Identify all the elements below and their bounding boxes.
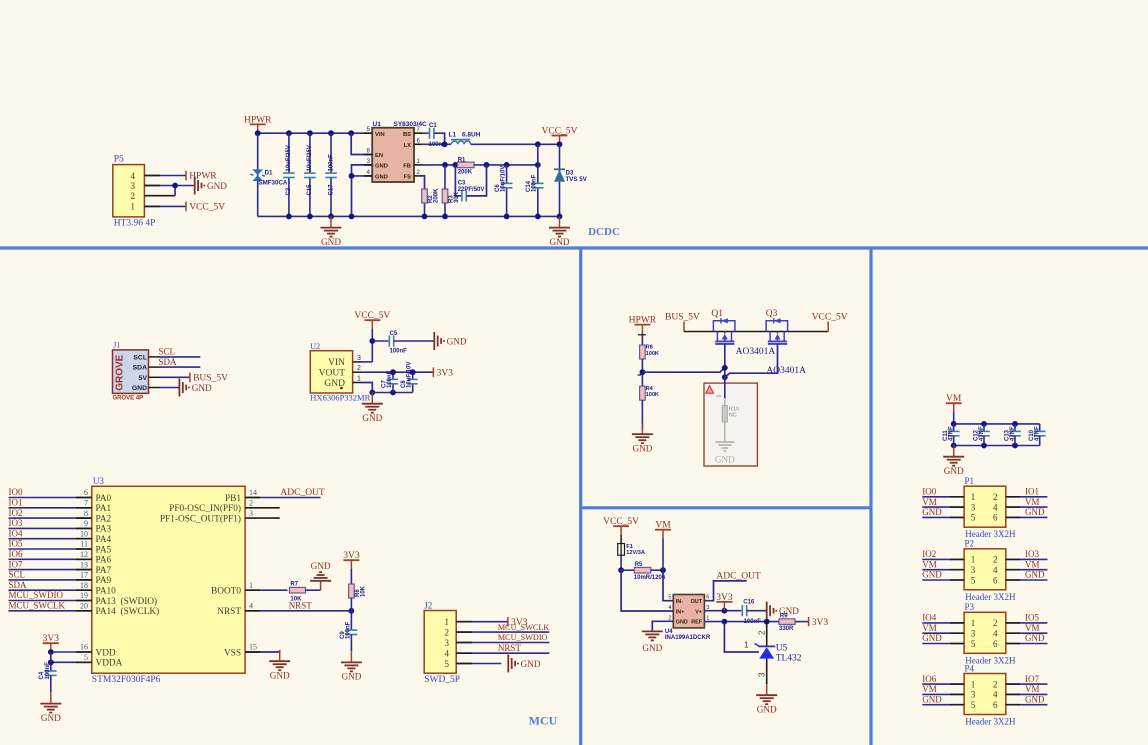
P1 pin 6 wire net GND bbox=[1006, 516, 1048, 518]
junction U2 GND node bbox=[369, 390, 375, 396]
svg-text:HX6306P332MR: HX6306P332MR bbox=[310, 393, 370, 403]
svg-text:10K: 10K bbox=[361, 585, 367, 597]
svg-text:FB: FB bbox=[403, 164, 411, 170]
svg-text:6: 6 bbox=[993, 513, 998, 523]
svg-text:GND: GND bbox=[550, 237, 570, 247]
svg-text:2: 2 bbox=[357, 365, 361, 372]
svg-text:R7: R7 bbox=[290, 582, 298, 588]
wire R7 to GND bbox=[306, 589, 321, 591]
svg-text:NRST: NRST bbox=[498, 643, 522, 653]
svg-text:GND: GND bbox=[132, 385, 147, 392]
wire FB net bbox=[422, 164, 457, 166]
U3 pin 18 PA10 wire net SDA bbox=[9, 589, 92, 591]
Q3 gate wire bbox=[725, 344, 778, 377]
svg-text:U5: U5 bbox=[776, 644, 788, 654]
svg-text:17: 17 bbox=[80, 571, 88, 580]
svg-text:1: 1 bbox=[249, 581, 253, 590]
svg-text:SWD_5P: SWD_5P bbox=[424, 675, 460, 685]
svg-text:IO3: IO3 bbox=[9, 518, 23, 528]
junction VDDA bbox=[48, 659, 54, 665]
U3 pin 5 VDDA wire bbox=[51, 661, 92, 663]
svg-text:4: 4 bbox=[993, 565, 998, 575]
svg-text:GND: GND bbox=[922, 633, 942, 643]
ground GND above R7 flipped bbox=[320, 581, 322, 590]
svg-text:NRST: NRST bbox=[289, 601, 313, 611]
svg-text:2: 2 bbox=[993, 679, 998, 689]
wire gate node into NC box bbox=[724, 377, 726, 398]
svg-text:3: 3 bbox=[971, 690, 976, 700]
capacitor C14 100nF bbox=[537, 165, 539, 184]
DCDC bottom ground rail bbox=[258, 215, 560, 217]
P3 pin 4 wire net VM bbox=[1006, 632, 1048, 634]
svg-text:MCU_SWCLK: MCU_SWCLK bbox=[498, 623, 549, 632]
U3 pin 10 PA4 wire net IO4 bbox=[9, 538, 92, 540]
svg-text:4: 4 bbox=[668, 605, 671, 611]
svg-text:C1: C1 bbox=[429, 123, 437, 129]
U1 pin 5 VIN bbox=[364, 132, 372, 134]
svg-text:GND: GND bbox=[447, 336, 467, 346]
svg-text:IO0: IO0 bbox=[922, 487, 936, 497]
svg-text:1: 1 bbox=[971, 679, 976, 689]
svg-text:VCC_5V: VCC_5V bbox=[812, 312, 848, 322]
U3 pin 4 NRST wire bbox=[245, 610, 351, 612]
junction bottom rail C2 bbox=[286, 214, 292, 220]
capacitor C3 22PF/50V feedforward loop bbox=[455, 165, 461, 196]
capacitor C8 10uF/10V bbox=[412, 372, 414, 379]
svg-text:C2: C2 bbox=[286, 187, 292, 195]
svg-text:BUS_5V: BUS_5V bbox=[665, 312, 700, 322]
capacitor C4 100nF bbox=[50, 652, 52, 671]
U3 pin 6 PA0 wire net IO0 bbox=[9, 497, 92, 499]
connector P2 Header 3X2H bbox=[964, 549, 1006, 590]
svg-text:100nF: 100nF bbox=[328, 154, 334, 172]
svg-text:PA1: PA1 bbox=[96, 504, 112, 514]
svg-text:J2: J2 bbox=[424, 601, 432, 611]
P1 pin 3 wire net VM bbox=[922, 506, 964, 508]
svg-text:7: 7 bbox=[84, 499, 88, 508]
svg-text:5: 5 bbox=[84, 653, 88, 662]
TL432 anode pin 3 wire bbox=[766, 659, 768, 684]
wire VM to cap rail bbox=[953, 412, 955, 431]
svg-text:GND: GND bbox=[375, 175, 388, 181]
svg-text:3: 3 bbox=[971, 629, 976, 639]
svg-text:GND: GND bbox=[311, 561, 331, 571]
svg-text:AO3401A: AO3401A bbox=[766, 366, 806, 376]
ground GND at P5 pin3 bbox=[194, 177, 196, 195]
U3 pin 15 VSS wire bbox=[245, 650, 280, 652]
ground GND under C9 bbox=[350, 651, 352, 662]
svg-text:5: 5 bbox=[971, 639, 976, 649]
svg-text:100nF: 100nF bbox=[390, 348, 408, 354]
svg-text:3V3: 3V3 bbox=[812, 618, 829, 628]
svg-text:VM: VM bbox=[922, 559, 937, 569]
svg-text:11: 11 bbox=[80, 540, 88, 549]
P3 pin 5 wire net GND bbox=[922, 643, 964, 645]
regulator U2 HX6306P332MR bbox=[310, 351, 352, 393]
junction FB R3 bbox=[442, 162, 448, 168]
svg-text:4: 4 bbox=[131, 171, 136, 181]
junction LX C1 bbox=[442, 141, 448, 147]
svg-text:SCL: SCL bbox=[9, 570, 26, 580]
U1 pin 8 EN bbox=[364, 154, 372, 156]
svg-text:100K: 100K bbox=[646, 351, 659, 357]
svg-text:MCU_SWCLK: MCU_SWCLK bbox=[9, 601, 66, 611]
svg-text:3V3: 3V3 bbox=[437, 368, 454, 378]
svg-text:19: 19 bbox=[80, 591, 88, 600]
svg-text:C16: C16 bbox=[743, 600, 755, 606]
capacitor C2 10uF/25V bbox=[288, 133, 290, 173]
resistor R9 330R bbox=[779, 619, 795, 625]
ground GND under TL432 bbox=[766, 684, 768, 695]
svg-text:3: 3 bbox=[758, 672, 767, 677]
junction C8 top bbox=[410, 369, 416, 375]
P1 pin 1 wire net IO0 bbox=[922, 496, 964, 498]
svg-text:FS: FS bbox=[404, 175, 412, 181]
svg-text:R8: R8 bbox=[646, 345, 653, 351]
svg-text:IO0: IO0 bbox=[9, 487, 23, 497]
svg-text:5: 5 bbox=[668, 595, 671, 601]
svg-text:8: 8 bbox=[84, 509, 88, 518]
junction bottom rail C6 bbox=[504, 214, 510, 220]
U4 GND pin wire bbox=[652, 621, 673, 631]
svg-text:ADC_OUT: ADC_OUT bbox=[280, 488, 325, 498]
junction bottom rail U1 GND bbox=[349, 214, 355, 220]
svg-text:2: 2 bbox=[668, 615, 671, 621]
svg-text:4: 4 bbox=[249, 602, 253, 611]
svg-text:BOOT0: BOOT0 bbox=[211, 587, 241, 597]
svg-text:GND: GND bbox=[757, 704, 777, 714]
svg-text:U2: U2 bbox=[310, 342, 320, 351]
svg-text:3: 3 bbox=[971, 565, 976, 575]
capacitor C16 100nF bbox=[741, 605, 743, 616]
svg-text:IO6: IO6 bbox=[922, 674, 936, 684]
svg-text:4: 4 bbox=[993, 629, 998, 639]
capacitor C11 47NF bbox=[953, 424, 955, 432]
TL432 ref wire pin 1 bbox=[724, 622, 759, 652]
svg-text:OUT: OUT bbox=[691, 599, 703, 605]
net flag HPWR at P5 bbox=[185, 171, 187, 181]
junction bottom rail C15 bbox=[307, 214, 313, 220]
section divider horizontal bbox=[0, 246, 1148, 249]
junction P5 pin3 bbox=[172, 183, 178, 189]
U3 pin 19 PA13 (SWDIO) wire net MCU_SWDIO bbox=[9, 600, 92, 602]
svg-text:SDA: SDA bbox=[133, 365, 147, 372]
junction bottom rail R2 bbox=[422, 214, 428, 220]
svg-text:VM: VM bbox=[922, 623, 937, 633]
junction REF TL432 bbox=[722, 619, 728, 625]
svg-text:5: 5 bbox=[971, 513, 976, 523]
svg-text:14: 14 bbox=[249, 488, 257, 497]
svg-text:1: 1 bbox=[706, 615, 709, 621]
svg-text:GND: GND bbox=[207, 181, 227, 191]
svg-text:IN-: IN- bbox=[676, 599, 683, 605]
svg-text:IN+: IN+ bbox=[676, 609, 685, 615]
junction bottom rail C13 bbox=[1012, 443, 1018, 449]
svg-text:STM32F030F4P6: STM32F030F4P6 bbox=[92, 675, 161, 685]
svg-text:C15: C15 bbox=[307, 184, 313, 196]
svg-text:200K: 200K bbox=[434, 188, 440, 203]
section divider vertical right bbox=[869, 248, 872, 745]
P2 pin 6 wire net GND bbox=[1006, 579, 1048, 581]
Q1 gate wire bbox=[724, 344, 726, 377]
U1 pin 1 FB bbox=[414, 164, 422, 166]
svg-text:SMF30CA: SMF30CA bbox=[259, 180, 288, 187]
svg-text:4: 4 bbox=[445, 649, 450, 659]
svg-text:GND: GND bbox=[521, 659, 541, 669]
svg-text:330R: 330R bbox=[779, 626, 794, 632]
junction FB C6 bbox=[504, 162, 510, 168]
svg-text:Header 3X2H: Header 3X2H bbox=[965, 717, 1016, 727]
svg-text:PF0-OSC_IN(PF0): PF0-OSC_IN(PF0) bbox=[169, 503, 241, 514]
section divider horizontal middle bbox=[581, 506, 871, 509]
svg-text:3: 3 bbox=[131, 181, 136, 191]
svg-text:3: 3 bbox=[445, 638, 450, 648]
svg-text:IO6: IO6 bbox=[9, 549, 23, 559]
U3 pin 17 PA9 wire net SCL bbox=[9, 579, 92, 581]
svg-text:10: 10 bbox=[80, 529, 88, 538]
op-amp U4 INA199A1DCKR current sense amp bbox=[673, 595, 704, 628]
svg-text:IO2: IO2 bbox=[9, 508, 23, 518]
ground GND at J1 bbox=[178, 379, 180, 397]
junction HPWR rail at D1 bbox=[255, 130, 261, 136]
svg-text:SDA: SDA bbox=[159, 357, 178, 367]
junction REF R9 bbox=[764, 619, 770, 625]
P3 pin 1 wire net IO4 bbox=[922, 622, 964, 624]
junction HPWR rail at C2 bbox=[286, 130, 292, 136]
U3 pin 2 PF0-OSC_IN wire bbox=[245, 507, 280, 509]
capacitor C10 47NF bbox=[1039, 424, 1041, 432]
svg-text:PB1: PB1 bbox=[225, 494, 241, 504]
svg-text:PA6: PA6 bbox=[96, 556, 112, 566]
svg-text:5: 5 bbox=[971, 575, 976, 585]
svg-text:C17: C17 bbox=[328, 184, 334, 196]
U3 pin 1 BOOT0 wire bbox=[245, 589, 287, 591]
op-amp U3 STM32F030F4P6 MCU bbox=[92, 486, 245, 673]
svg-text:NRST: NRST bbox=[217, 607, 241, 617]
wire shunt left to IN+ bbox=[621, 570, 673, 611]
svg-text:10uF/25V: 10uF/25V bbox=[307, 145, 313, 171]
wire P5 pin3 to pin2 bbox=[174, 186, 176, 196]
svg-text:PA4: PA4 bbox=[96, 535, 112, 545]
svg-text:IO4: IO4 bbox=[9, 528, 23, 538]
svg-text:16: 16 bbox=[80, 643, 88, 652]
svg-text:L1: L1 bbox=[449, 132, 457, 139]
svg-text:VIN: VIN bbox=[328, 358, 345, 368]
svg-text:GND: GND bbox=[1025, 507, 1045, 517]
svg-text:6: 6 bbox=[993, 575, 998, 585]
J2 pin 4 wire bbox=[456, 652, 549, 654]
svg-text:HT3.96 4P: HT3.96 4P bbox=[114, 218, 156, 228]
svg-text:2: 2 bbox=[249, 499, 253, 508]
connector P4 Header 3X2H bbox=[964, 674, 1006, 715]
ground GND under VSS bbox=[279, 650, 281, 661]
svg-text:4: 4 bbox=[993, 690, 998, 700]
U3 pin 7 PA1 wire net IO1 bbox=[9, 507, 92, 509]
P4 pin 3 wire net VM bbox=[922, 693, 964, 695]
svg-text:PF1-OSC_OUT(PF1): PF1-OSC_OUT(PF1) bbox=[160, 513, 241, 524]
junction bottom rail C14 bbox=[535, 214, 541, 220]
svg-text:GND: GND bbox=[715, 455, 735, 465]
svg-text:GND: GND bbox=[375, 164, 388, 170]
P3 pin 6 wire net GND bbox=[1006, 643, 1048, 645]
svg-text:V+: V+ bbox=[695, 609, 702, 615]
svg-text:GND: GND bbox=[321, 237, 341, 247]
power rail BUS_5V to VCC_5V bbox=[684, 331, 828, 333]
junction bottom rail C12 bbox=[981, 443, 987, 449]
svg-text:10uF/25V: 10uF/25V bbox=[286, 145, 292, 171]
resistor R3 30K bbox=[444, 165, 446, 189]
connector J1 GROVE 4P bbox=[113, 350, 149, 394]
svg-text:PA2: PA2 bbox=[96, 514, 112, 524]
svg-text:IO2: IO2 bbox=[922, 549, 936, 559]
junction bottom rail C11 bbox=[951, 443, 957, 449]
svg-text:GND: GND bbox=[192, 383, 212, 393]
P1 pin 2 wire net IO1 bbox=[1006, 496, 1048, 498]
svg-text:1: 1 bbox=[971, 492, 976, 502]
svg-text:100nF: 100nF bbox=[45, 662, 51, 680]
svg-text:GND: GND bbox=[41, 713, 61, 723]
junction V+ 3V3 bbox=[722, 608, 728, 614]
P4 pin 6 wire net GND bbox=[1006, 704, 1048, 706]
svg-text:PA0: PA0 bbox=[96, 494, 112, 504]
svg-text:GND: GND bbox=[1025, 694, 1045, 704]
svg-text:VSS: VSS bbox=[224, 648, 241, 658]
net flag 3V3 at U2 output bbox=[432, 367, 434, 377]
capacitor C6 10uF/10V bbox=[506, 165, 508, 184]
svg-text:1: 1 bbox=[744, 641, 749, 650]
svg-text:DCDC: DCDC bbox=[588, 226, 620, 238]
P2 pin 5 wire net GND bbox=[922, 579, 964, 581]
svg-text:P1: P1 bbox=[965, 476, 975, 486]
connector J2 SWD_5P bbox=[424, 611, 456, 674]
svg-text:MCU_SWDIO: MCU_SWDIO bbox=[9, 590, 64, 600]
svg-text:SY8303/4C: SY8303/4C bbox=[394, 121, 428, 128]
inductor L1 6.8UH bbox=[451, 139, 470, 141]
wire R8 to junction bbox=[641, 359, 643, 386]
svg-text:5: 5 bbox=[445, 659, 450, 669]
P4 pin 2 wire net IO7 bbox=[1006, 683, 1048, 685]
junction R5 left bbox=[618, 567, 624, 573]
svg-text:47NF: 47NF bbox=[1010, 426, 1016, 441]
svg-text:9: 9 bbox=[84, 519, 88, 528]
svg-text:GND: GND bbox=[944, 466, 964, 476]
svg-text:2: 2 bbox=[758, 630, 767, 635]
capacitor C12 47NF bbox=[983, 424, 985, 432]
svg-text:AO3401A: AO3401A bbox=[736, 347, 776, 357]
svg-text:15: 15 bbox=[249, 643, 257, 652]
P2 pin 2 wire net IO3 bbox=[1006, 558, 1048, 560]
junction bottom rail D3 bbox=[557, 214, 563, 220]
svg-text:PA9: PA9 bbox=[96, 576, 112, 586]
junction C7 bottom bbox=[390, 390, 396, 396]
svg-text:12V/3A: 12V/3A bbox=[626, 550, 645, 556]
ground GND under R4 bbox=[641, 423, 643, 434]
junction HPWR rail at C15 bbox=[307, 130, 313, 136]
resistor R6 10K pullup bbox=[350, 569, 352, 584]
svg-text:TVS 5V: TVS 5V bbox=[566, 176, 588, 183]
resistor R8 100K bbox=[640, 345, 646, 359]
svg-text:VM: VM bbox=[922, 497, 937, 507]
net flag BUS_5V at J1 bbox=[189, 373, 191, 383]
svg-text:J1: J1 bbox=[113, 341, 120, 350]
svg-text:10mR/1206: 10mR/1206 bbox=[634, 575, 666, 581]
P2 pin 3 wire net VM bbox=[922, 569, 964, 571]
connector P5 HT3.96 4P bbox=[113, 165, 145, 217]
TVS diode D1 SMF30CA bbox=[257, 133, 259, 216]
cap bottom rail bbox=[954, 445, 1040, 447]
junction VOUT vertical bbox=[535, 162, 541, 168]
ground GND DCDC left bbox=[330, 216, 332, 227]
svg-text:PA10: PA10 bbox=[96, 587, 117, 597]
svg-text:3: 3 bbox=[971, 502, 976, 512]
resistor R10 NC bbox=[724, 398, 726, 406]
ground GND at C5 bbox=[433, 332, 435, 350]
NC box not-fitted area bbox=[704, 383, 757, 466]
svg-text:13: 13 bbox=[80, 560, 88, 569]
svg-text:12: 12 bbox=[80, 550, 88, 559]
svg-text:5V: 5V bbox=[139, 375, 148, 382]
svg-text:SCL: SCL bbox=[133, 355, 147, 362]
svg-text:PA5: PA5 bbox=[96, 545, 112, 555]
svg-text:4: 4 bbox=[993, 502, 998, 512]
J2 pin 2 wire bbox=[456, 631, 549, 633]
svg-text:D1: D1 bbox=[265, 170, 273, 177]
svg-text:C3: C3 bbox=[458, 180, 466, 186]
svg-text:VCC_5V: VCC_5V bbox=[189, 203, 225, 213]
svg-text:PA14 (SWCLK): PA14 (SWCLK) bbox=[96, 606, 160, 617]
junction U1 GND4 bbox=[349, 173, 355, 179]
svg-text:Header 3X2H: Header 3X2H bbox=[965, 592, 1016, 602]
svg-text:200K: 200K bbox=[458, 170, 473, 176]
resistor R4 100K bbox=[640, 386, 646, 400]
svg-text:GND: GND bbox=[632, 443, 652, 453]
svg-text:6: 6 bbox=[706, 595, 709, 601]
junction gate node 2 bbox=[722, 374, 728, 380]
ground GND at U4 bbox=[642, 630, 663, 632]
svg-text:U3: U3 bbox=[93, 476, 104, 486]
svg-text:PA13 (SWDIO): PA13 (SWDIO) bbox=[96, 596, 158, 607]
svg-text:IO7: IO7 bbox=[9, 559, 23, 569]
fuse F1 12V/3A bbox=[620, 535, 622, 544]
svg-text:PA7: PA7 bbox=[96, 566, 112, 576]
svg-text:R4: R4 bbox=[646, 386, 654, 392]
svg-text:VOUT: VOUT bbox=[319, 369, 346, 379]
svg-text:VIN: VIN bbox=[375, 132, 385, 138]
junction HPWR rail at C17 bbox=[328, 130, 334, 136]
svg-text:2: 2 bbox=[993, 492, 998, 502]
U3 pin 13 PA7 wire net IO7 bbox=[9, 569, 92, 571]
junction C7 top bbox=[390, 369, 396, 375]
ground GND DCDC right bbox=[559, 216, 561, 227]
svg-text:MCU_SWDIO: MCU_SWDIO bbox=[498, 633, 548, 642]
svg-text:IO7: IO7 bbox=[1025, 674, 1039, 684]
P4 pin 1 wire net IO6 bbox=[922, 683, 964, 685]
P3 pin 3 wire net VM bbox=[922, 632, 964, 634]
wire divider to gates bbox=[642, 368, 724, 372]
junction FB C3 right bbox=[484, 162, 490, 168]
svg-text:GND: GND bbox=[362, 413, 382, 423]
J2 pin 3 wire bbox=[456, 642, 549, 644]
capacitor C7 100nF bbox=[392, 372, 394, 379]
resistor R7 10K bbox=[290, 587, 306, 593]
junction NRST node bbox=[349, 608, 355, 614]
voltage reference U5 TL432 bbox=[766, 622, 768, 646]
svg-text:GND: GND bbox=[1025, 633, 1045, 643]
svg-text:5: 5 bbox=[971, 700, 976, 710]
resistor R2 200K bbox=[424, 203, 426, 216]
svg-text:GND: GND bbox=[270, 670, 290, 680]
ground GND gray in NC box bbox=[716, 441, 735, 443]
